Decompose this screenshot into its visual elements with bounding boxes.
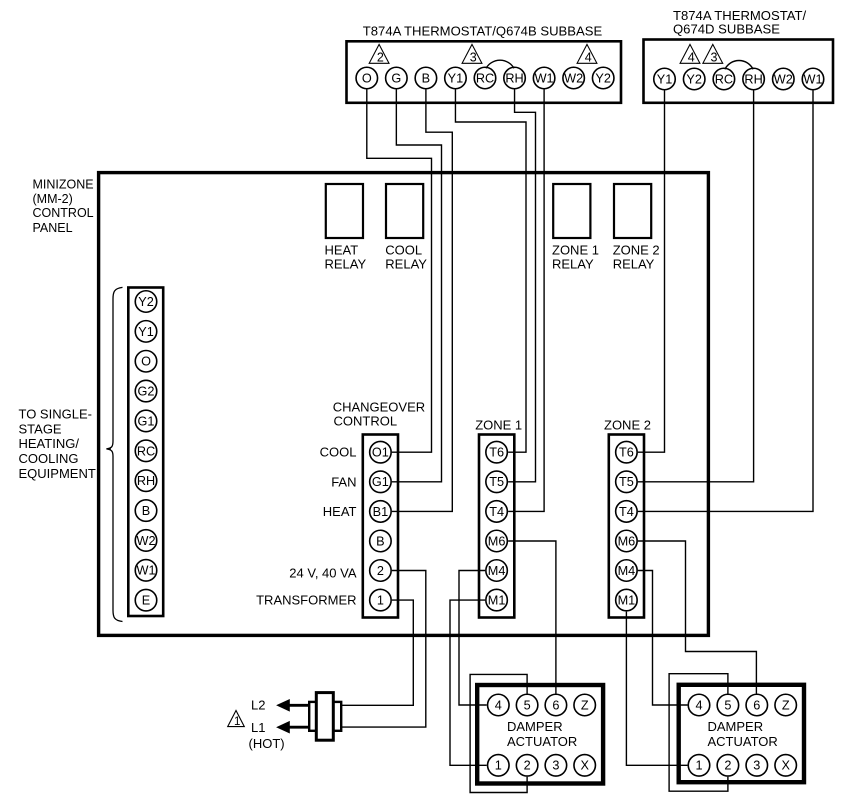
svg-text:B: B [422, 71, 430, 85]
svg-text:L1: L1 [251, 720, 265, 735]
terminal T4 (zone 1) [486, 501, 508, 523]
svg-text:3: 3 [470, 51, 477, 65]
svg-text:O: O [141, 355, 151, 369]
svg-text:CHANGEOVER: CHANGEOVER [333, 400, 425, 415]
wire terminal 2 to transformer L1 side [341, 571, 426, 728]
jumper 5-2 on damper actuator 1 [470, 674, 527, 792]
svg-text:B: B [376, 534, 384, 548]
damper actuator 1 box [477, 685, 603, 784]
svg-text:X: X [781, 759, 790, 773]
jumper 5-2 on damper actuator 2 [669, 674, 728, 792]
terminal M4 (zone 1) [486, 560, 508, 582]
terminal 2 (changeover control) [370, 560, 392, 582]
MiniZone MM-2 control panel box [99, 173, 709, 636]
svg-text:T5: T5 [619, 475, 634, 489]
terminal M6 (zone 2) [616, 530, 638, 552]
terminal G1 (equipment strip) [135, 410, 157, 432]
wire Y1 (thermostat 2) to T6 (zone 2) [638, 91, 665, 453]
terminal 4 (damper actuator 1) [488, 694, 510, 716]
svg-text:O1: O1 [372, 446, 389, 460]
svg-text:1: 1 [695, 759, 702, 773]
svg-text:B: B [142, 504, 150, 518]
wire Y1 (thermostat 1) to T6 (zone 1) [455, 90, 526, 453]
svg-text:RELAY: RELAY [552, 257, 594, 272]
label DAMPER ACTUATOR 2 [708, 719, 778, 749]
label ZONE 2 RELAY [613, 243, 660, 272]
transformer symbol [309, 693, 341, 741]
svg-text:RH: RH [744, 72, 762, 86]
terminal M1 (zone 1) [486, 589, 508, 611]
terminal W1 (equipment strip) [135, 560, 157, 582]
svg-text:3: 3 [753, 759, 760, 773]
triangle note 3 (thermostat 2) [703, 44, 723, 64]
terminal B (thermostat 1) [415, 67, 437, 89]
svg-text:Y1: Y1 [448, 71, 464, 85]
svg-text:6: 6 [753, 698, 760, 712]
svg-text:1: 1 [495, 759, 502, 773]
svg-text:RC: RC [476, 71, 494, 85]
svg-text:TO SINGLE-: TO SINGLE- [19, 407, 92, 422]
wire RH (thermostat 1) to T5 (zone 1) [508, 90, 535, 482]
svg-text:RELAY: RELAY [385, 257, 427, 272]
svg-text:W1: W1 [535, 71, 554, 85]
terminal RC (thermostat 2) [713, 68, 735, 90]
terminal T5 (zone 1) [486, 471, 508, 493]
svg-text:ZONE 1: ZONE 1 [475, 418, 522, 433]
terminal Z (damper actuator 1) [574, 694, 596, 716]
terminal W2 (thermostat 2) [773, 68, 795, 90]
wire O to O1 (cool changeover) [367, 90, 432, 453]
svg-text:L2: L2 [251, 698, 265, 713]
svg-text:4: 4 [495, 698, 502, 712]
svg-text:G: G [391, 71, 401, 85]
zone 1 relay box [553, 184, 590, 238]
svg-text:Z: Z [581, 698, 589, 712]
svg-text:W1: W1 [803, 72, 822, 86]
terminal 6 (damper actuator 1) [545, 694, 567, 716]
damper actuator 2 box [679, 685, 804, 782]
svg-text:RC: RC [715, 72, 733, 86]
svg-text:2: 2 [377, 564, 384, 578]
changeover control strip [363, 435, 398, 618]
terminal M4 (zone 2) [616, 560, 638, 582]
terminal Y2 (thermostat 2) [683, 68, 705, 90]
svg-text:EQUIPMENT: EQUIPMENT [19, 466, 96, 481]
wire M6 (zone 2) to damper 2 terminal 6 [638, 541, 756, 693]
L2 lead arrow [276, 699, 309, 712]
terminal RH (equipment strip) [135, 470, 157, 492]
svg-text:W2: W2 [774, 72, 793, 86]
svg-text:6: 6 [552, 698, 559, 712]
svg-text:T874A THERMOSTAT/Q674B SUBBASE: T874A THERMOSTAT/Q674B SUBBASE [363, 24, 603, 39]
wire terminal 1 to transformer L2 side [341, 600, 413, 705]
label COOL RELAY [385, 243, 427, 272]
terminal X (damper actuator 2) [775, 755, 797, 777]
L1 lead arrow [276, 721, 309, 734]
triangle note 2 (thermostat 1) [369, 44, 389, 64]
wire W1 (thermostat 2) to T4 (zone 2) [638, 91, 813, 512]
terminal M1 (zone 2) [616, 589, 638, 611]
svg-text:T6: T6 [489, 446, 504, 460]
svg-text:X: X [580, 759, 589, 773]
terminal T6 (zone 2) [616, 441, 638, 463]
svg-text:MINIZONE: MINIZONE [33, 177, 94, 191]
svg-text:M4: M4 [488, 564, 506, 578]
terminal B1 (changeover control) [370, 501, 392, 523]
terminal Y1 (equipment strip) [135, 321, 157, 343]
svg-text:M6: M6 [488, 534, 506, 548]
terminal T6 (zone 1) [486, 441, 508, 463]
wire M1 (zone 2) to damper 2 terminal 1 [626, 612, 687, 766]
svg-text:4: 4 [585, 51, 592, 65]
terminal RC (thermostat 1) [474, 67, 496, 89]
terminal 1 (damper actuator 1) [488, 755, 510, 777]
svg-text:Y2: Y2 [686, 72, 702, 86]
zone 1 terminal strip [479, 435, 514, 618]
terminal 2 (damper actuator 2) [717, 755, 739, 777]
svg-text:G1: G1 [372, 475, 389, 489]
svg-text:HEATING/: HEATING/ [19, 436, 80, 451]
svg-text:G1: G1 [138, 414, 155, 428]
terminal G1 (changeover control) [370, 471, 392, 493]
single-stage equipment terminal strip [128, 288, 163, 617]
svg-text:DAMPER: DAMPER [708, 719, 764, 734]
terminal G (thermostat 1) [386, 67, 408, 89]
terminal W2 (thermostat 1) [563, 67, 585, 89]
svg-text:E: E [142, 594, 150, 608]
terminal 5 (damper actuator 2) [717, 694, 739, 716]
terminal 2 (damper actuator 1) [516, 755, 538, 777]
svg-text:(HOT): (HOT) [249, 736, 285, 751]
svg-text:4: 4 [695, 698, 702, 712]
terminal T4 (zone 2) [616, 501, 638, 523]
svg-text:COOL: COOL [385, 243, 422, 258]
svg-text:RH: RH [137, 474, 155, 488]
svg-text:ZONE 1: ZONE 1 [552, 243, 599, 258]
svg-text:ZONE 2: ZONE 2 [604, 418, 651, 433]
terminal X (damper actuator 1) [574, 755, 596, 777]
wire W1 (thermostat 1) to T4 (zone 1) [508, 90, 544, 512]
svg-text:1: 1 [234, 716, 240, 728]
svg-text:ZONE 2: ZONE 2 [613, 243, 660, 258]
svg-text:Y1: Y1 [138, 325, 154, 339]
jumper arc RC-RH (thermostat 1) [486, 60, 514, 68]
terminal 4 (damper actuator 2) [688, 694, 710, 716]
terminal G2 (equipment strip) [135, 380, 157, 402]
triangle note 1 (power) [228, 711, 245, 729]
svg-text:1: 1 [377, 594, 384, 608]
svg-text:24 V, 40 VA: 24 V, 40 VA [289, 566, 357, 581]
terminal E (equipment strip) [135, 589, 157, 611]
svg-text:W2: W2 [564, 71, 583, 85]
label ZONE 1 RELAY [552, 243, 599, 272]
terminal 3 (damper actuator 1) [545, 755, 567, 777]
svg-text:FAN: FAN [331, 474, 356, 489]
wire RH (thermostat 2) to T5 (zone 2) [638, 91, 754, 482]
wire M6 (zone 1) to damper 1 terminal 6 [508, 541, 556, 693]
terminal 3 (damper actuator 2) [746, 755, 768, 777]
terminal 1 (damper actuator 2) [688, 755, 710, 777]
brace to equipment [106, 287, 122, 621]
terminal O1 (changeover control) [370, 441, 392, 463]
svg-text:T4: T4 [619, 505, 634, 519]
svg-text:O: O [362, 71, 372, 85]
terminal 1 (changeover control) [370, 589, 392, 611]
svg-text:RH: RH [505, 71, 523, 85]
terminal W2 (equipment strip) [135, 530, 157, 552]
svg-text:DAMPER: DAMPER [507, 719, 563, 734]
svg-text:2: 2 [377, 51, 384, 65]
terminal B (equipment strip) [135, 500, 157, 521]
terminal W1 (thermostat 1) [533, 67, 555, 89]
wire M4 (zone 2) to damper 2 terminal 4 [638, 571, 688, 706]
svg-text:3: 3 [711, 51, 718, 65]
terminal RH (thermostat 1) [504, 67, 526, 89]
label MINIZONE (MM-2) CONTROL PANEL [33, 177, 94, 235]
terminal T5 (zone 2) [616, 471, 638, 493]
terminal Y1 (thermostat 2) [654, 68, 676, 90]
triangle note 4 (thermostat 1) [577, 44, 597, 64]
svg-text:CONTROL: CONTROL [334, 413, 398, 428]
label TO SINGLE-STAGE HEATING/COOLING EQUIPMENT [19, 407, 96, 481]
terminal O (equipment strip) [135, 350, 157, 372]
terminal 6 (damper actuator 2) [746, 694, 768, 716]
svg-text:RELAY: RELAY [613, 257, 655, 272]
terminal Z (damper actuator 2) [775, 694, 797, 716]
svg-text:W2: W2 [136, 534, 155, 548]
label HEAT RELAY [325, 243, 367, 272]
svg-text:PANEL: PANEL [33, 221, 73, 235]
terminal Y2 (thermostat 1) [592, 67, 614, 89]
svg-text:T4: T4 [489, 505, 504, 519]
terminal O (thermostat 1) [356, 67, 378, 89]
triangle note 3 (thermostat 1) [462, 44, 482, 64]
wire B to B1 (heat) [392, 90, 452, 512]
terminal W1 (thermostat 2) [802, 68, 824, 90]
terminal 5 (damper actuator 1) [516, 694, 538, 716]
svg-text:Q674D SUBBASE: Q674D SUBBASE [673, 22, 780, 37]
svg-text:ACTUATOR: ACTUATOR [708, 734, 778, 749]
svg-text:M1: M1 [618, 594, 636, 608]
svg-text:Y1: Y1 [657, 72, 673, 86]
svg-text:HEAT: HEAT [325, 243, 359, 258]
svg-text:Y2: Y2 [595, 71, 611, 85]
svg-text:2: 2 [724, 759, 731, 773]
svg-text:G2: G2 [138, 385, 155, 399]
svg-text:3: 3 [552, 759, 559, 773]
zone 2 terminal strip [609, 435, 644, 618]
terminal M6 (zone 1) [486, 530, 508, 552]
terminal Y1 (thermostat 1) [445, 67, 467, 89]
svg-text:W1: W1 [136, 564, 155, 578]
svg-text:B1: B1 [373, 505, 389, 519]
label DAMPER ACTUATOR 1 [507, 719, 577, 749]
svg-text:M1: M1 [488, 594, 506, 608]
svg-text:M6: M6 [618, 534, 636, 548]
wire M4 (zone 1) to damper 1 terminal 4 [459, 571, 487, 706]
svg-text:HEAT: HEAT [323, 504, 357, 519]
terminal B (changeover control) [370, 530, 392, 552]
terminal RC (equipment strip) [135, 440, 157, 462]
zone 2 relay box [614, 184, 651, 238]
svg-text:T6: T6 [619, 446, 634, 460]
svg-text:TRANSFORMER: TRANSFORMER [256, 593, 356, 608]
label CHANGEOVER CONTROL [333, 400, 425, 429]
svg-text:4: 4 [688, 51, 695, 65]
terminal RH (thermostat 2) [743, 68, 765, 90]
svg-text:2: 2 [524, 759, 531, 773]
jumper arc RC-RH (thermostat 2) [725, 61, 753, 70]
wire G to G1 (fan) [392, 90, 442, 482]
wire M1 (zone 1) to damper 1 terminal 1 [450, 600, 487, 765]
svg-text:M4: M4 [618, 564, 636, 578]
thermostat T874A/Q674D subbase box [644, 40, 834, 103]
heat relay box [326, 184, 363, 238]
svg-text:COOLING: COOLING [19, 451, 79, 466]
svg-text:ACTUATOR: ACTUATOR [507, 734, 577, 749]
svg-text:RC: RC [137, 444, 155, 458]
triangle note 4 (thermostat 2) [680, 44, 700, 64]
svg-text:Y2: Y2 [138, 295, 154, 309]
svg-text:RELAY: RELAY [325, 257, 367, 272]
terminal Y2 (equipment strip) [135, 291, 157, 313]
svg-text:COOL: COOL [320, 445, 357, 460]
thermostat T874A/Q674B subbase box [347, 41, 622, 103]
svg-text:STAGE: STAGE [19, 421, 62, 436]
svg-text:5: 5 [524, 698, 531, 712]
cool relay box [386, 184, 423, 238]
svg-text:(MM-2): (MM-2) [33, 192, 73, 206]
svg-text:5: 5 [724, 698, 731, 712]
svg-text:T5: T5 [489, 475, 504, 489]
svg-text:Z: Z [782, 698, 790, 712]
svg-text:CONTROL: CONTROL [33, 206, 94, 220]
